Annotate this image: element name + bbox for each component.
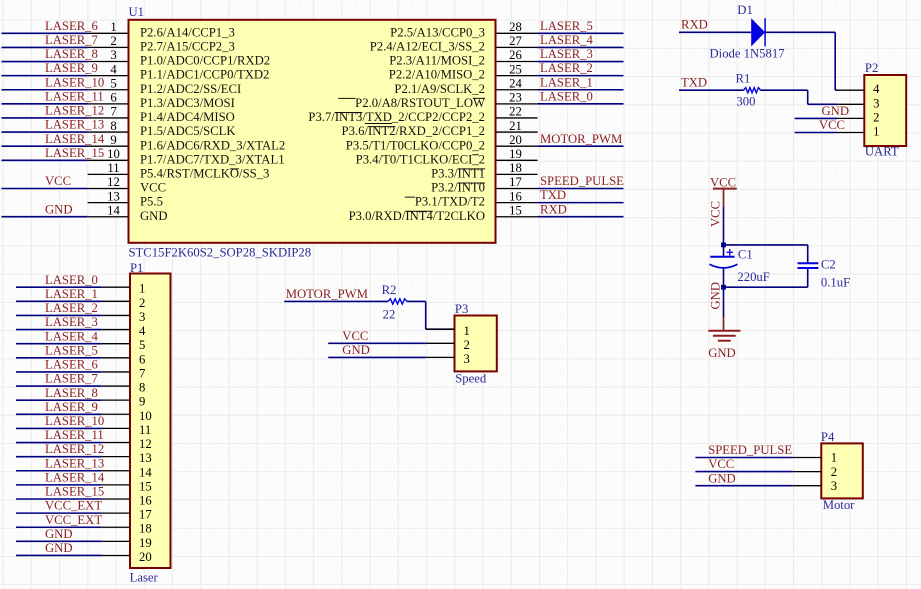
svg-text:VCC: VCC	[45, 174, 71, 188]
svg-text:P2.3/A11/MOSI_2: P2.3/A11/MOSI_2	[389, 54, 485, 68]
svg-text:P1.7/ADC7/TXD_3/XTAL1: P1.7/ADC7/TXD_3/XTAL1	[140, 152, 285, 166]
svg-text:P2.5/A13/CCP0_3: P2.5/A13/CCP0_3	[390, 25, 485, 39]
svg-text:GND: GND	[342, 343, 370, 357]
svg-text:LASER_13: LASER_13	[45, 118, 104, 132]
svg-text:LASER_0: LASER_0	[540, 89, 593, 103]
svg-text:GND: GND	[822, 104, 850, 118]
svg-text:TXD: TXD	[681, 76, 707, 90]
svg-text:19: 19	[509, 147, 522, 161]
svg-text:P2.7/A15/CCP2_3: P2.7/A15/CCP2_3	[140, 40, 235, 54]
svg-text:1: 1	[110, 20, 116, 34]
svg-text:2: 2	[873, 110, 879, 124]
svg-text:LASER_8: LASER_8	[45, 386, 98, 400]
svg-text:15: 15	[139, 479, 152, 493]
svg-text:P5.4/RST/MCLKO/SS_3: P5.4/RST/MCLKO/SS_3	[140, 167, 269, 181]
svg-text:LASER_6: LASER_6	[45, 19, 98, 33]
svg-text:VCC_EXT: VCC_EXT	[45, 499, 102, 513]
svg-text:LASER_5: LASER_5	[45, 343, 98, 357]
svg-text:3: 3	[873, 96, 879, 110]
svg-text:1: 1	[139, 282, 145, 296]
svg-text:14: 14	[107, 203, 120, 217]
svg-text:4: 4	[139, 324, 146, 338]
svg-text:LASER_11: LASER_11	[45, 89, 104, 103]
svg-text:7: 7	[139, 366, 145, 380]
svg-text:2: 2	[139, 296, 145, 310]
svg-text:GND: GND	[140, 209, 168, 223]
svg-text:LASER_4: LASER_4	[45, 329, 99, 343]
svg-text:LASER_15: LASER_15	[45, 485, 104, 499]
svg-text:17: 17	[509, 175, 522, 189]
svg-text:12: 12	[107, 175, 120, 189]
svg-text:P2.4/A12/ECI_3/SS_2: P2.4/A12/ECI_3/SS_2	[370, 40, 485, 54]
svg-text:D1: D1	[737, 3, 753, 17]
svg-text:P5.5: P5.5	[140, 195, 163, 209]
svg-text:20: 20	[509, 133, 522, 147]
svg-text:P3.5/T1/T0CLKO/CCP0_2: P3.5/T1/T0CLKO/CCP0_2	[346, 138, 485, 152]
svg-text:LASER_7: LASER_7	[45, 33, 98, 47]
svg-text:300: 300	[736, 94, 755, 108]
svg-text:MOTOR_PWM: MOTOR_PWM	[540, 132, 622, 146]
svg-text:20: 20	[139, 550, 152, 564]
svg-text:P3.4/T0/T1CLKO/ECI_2: P3.4/T0/T1CLKO/ECI_2	[356, 152, 485, 166]
svg-text:LASER_9: LASER_9	[45, 400, 98, 414]
svg-text:P1.0/ADC0/CCP1/RXD2: P1.0/ADC0/CCP1/RXD2	[140, 54, 270, 68]
svg-text:10: 10	[107, 147, 120, 161]
svg-text:LASER_0: LASER_0	[45, 273, 98, 287]
svg-text:23: 23	[509, 91, 522, 105]
svg-text:4: 4	[110, 62, 117, 76]
svg-text:VCC: VCC	[710, 175, 736, 189]
svg-text:RXD: RXD	[540, 202, 567, 216]
svg-text:LASER_12: LASER_12	[45, 442, 104, 456]
svg-text:VCC_EXT: VCC_EXT	[45, 513, 102, 527]
svg-text:27: 27	[509, 34, 522, 48]
svg-text:VCC: VCC	[342, 329, 368, 343]
svg-text:LASER_10: LASER_10	[45, 414, 104, 428]
svg-text:2: 2	[110, 34, 116, 48]
svg-text:Motor: Motor	[823, 498, 855, 512]
svg-text:7: 7	[110, 105, 116, 119]
svg-text:21: 21	[509, 119, 522, 133]
svg-text:GND: GND	[45, 541, 73, 555]
svg-text:P2: P2	[865, 61, 878, 75]
svg-text:10: 10	[139, 409, 152, 423]
svg-text:SPEED_PULSE: SPEED_PULSE	[708, 443, 792, 457]
svg-text:LASER_5: LASER_5	[540, 19, 593, 33]
svg-text:8: 8	[139, 381, 145, 395]
svg-text:LASER_1: LASER_1	[540, 75, 593, 89]
svg-text:16: 16	[139, 494, 152, 508]
svg-text:LASER_6: LASER_6	[45, 358, 98, 372]
svg-text:6: 6	[139, 352, 145, 366]
svg-text:0.1uF: 0.1uF	[821, 275, 850, 289]
svg-text:LASER_8: LASER_8	[45, 47, 98, 61]
svg-text:VCC: VCC	[819, 118, 845, 132]
svg-text:P2.0/A8/RSTOUT_LOW: P2.0/A8/RSTOUT_LOW	[355, 96, 485, 110]
svg-text:MOTOR_PWM: MOTOR_PWM	[286, 287, 368, 301]
svg-text:LASER_3: LASER_3	[45, 315, 98, 329]
svg-text:2: 2	[831, 465, 837, 479]
svg-text:LASER_11: LASER_11	[45, 428, 104, 442]
svg-text:3: 3	[139, 310, 145, 324]
svg-text:1: 1	[873, 125, 879, 139]
svg-text:STC15F2K60S2_SOP28_SKDIP28: STC15F2K60S2_SOP28_SKDIP28	[129, 246, 312, 260]
svg-text:P2.2/A10/MISO_2: P2.2/A10/MISO_2	[389, 68, 485, 82]
svg-text:11: 11	[139, 423, 151, 437]
svg-text:VCC: VCC	[709, 201, 723, 227]
svg-text:1: 1	[464, 324, 470, 338]
svg-text:C2: C2	[821, 258, 836, 272]
svg-text:22: 22	[383, 308, 396, 322]
svg-text:19: 19	[139, 536, 152, 550]
svg-text:9: 9	[139, 395, 145, 409]
svg-text:GND: GND	[45, 527, 73, 541]
svg-text:2: 2	[464, 338, 470, 352]
svg-text:LASER_12: LASER_12	[45, 104, 104, 118]
svg-text:1: 1	[831, 451, 837, 465]
svg-text:Laser: Laser	[130, 571, 159, 585]
svg-text:12: 12	[139, 437, 152, 451]
svg-text:Speed: Speed	[455, 372, 487, 386]
svg-text:3: 3	[831, 479, 837, 493]
svg-text:5: 5	[110, 76, 116, 90]
svg-text:P1.3/ADC3/MOSI: P1.3/ADC3/MOSI	[140, 96, 235, 110]
svg-text:P3: P3	[455, 302, 468, 316]
svg-text:GND: GND	[708, 346, 736, 360]
svg-text:26: 26	[509, 48, 522, 62]
svg-text:LASER_15: LASER_15	[45, 146, 104, 160]
svg-text:P2.1/A9/SCLK_2: P2.1/A9/SCLK_2	[394, 82, 485, 96]
svg-text:25: 25	[509, 62, 522, 76]
svg-text:11: 11	[107, 161, 119, 175]
svg-text:GND: GND	[708, 471, 736, 485]
svg-text:LASER_2: LASER_2	[45, 301, 98, 315]
svg-text:P1.2/ADC2/SS/ECI: P1.2/ADC2/SS/ECI	[140, 82, 241, 96]
svg-text:13: 13	[107, 189, 120, 203]
svg-text:R2: R2	[382, 283, 397, 297]
svg-text:GND: GND	[709, 282, 723, 310]
svg-text:17: 17	[139, 508, 152, 522]
svg-text:GND: GND	[45, 202, 73, 216]
svg-text:LASER_9: LASER_9	[45, 61, 98, 75]
svg-text:R1: R1	[736, 72, 751, 86]
svg-text:TXD: TXD	[540, 188, 566, 202]
svg-text:5: 5	[139, 338, 145, 352]
svg-text:LASER_14: LASER_14	[45, 471, 105, 485]
svg-text:LASER_1: LASER_1	[45, 287, 98, 301]
svg-text:P1.5/ADC5/SCLK: P1.5/ADC5/SCLK	[140, 124, 236, 138]
svg-text:22: 22	[509, 105, 522, 119]
svg-text:LASER_3: LASER_3	[540, 47, 593, 61]
svg-text:LASER_4: LASER_4	[540, 33, 594, 47]
svg-text:3: 3	[110, 48, 116, 62]
svg-text:16: 16	[509, 189, 522, 203]
svg-text:P1.1/ADC1/CCP0/TXD2: P1.1/ADC1/CCP0/TXD2	[140, 68, 269, 82]
svg-text:P4: P4	[821, 430, 835, 444]
svg-text:28: 28	[509, 20, 522, 34]
svg-text:RXD: RXD	[681, 18, 708, 32]
svg-text:LASER_2: LASER_2	[540, 61, 593, 75]
svg-text:LASER_10: LASER_10	[45, 75, 104, 89]
svg-text:SPEED_PULSE: SPEED_PULSE	[540, 174, 624, 188]
svg-text:LASER_7: LASER_7	[45, 372, 98, 386]
svg-text:P1.6/ADC6/RXD_3/XTAL2: P1.6/ADC6/RXD_3/XTAL2	[140, 138, 285, 152]
svg-text:8: 8	[110, 119, 116, 133]
svg-text:P1.4/ADC4/MISO: P1.4/ADC4/MISO	[140, 110, 235, 124]
svg-text:UART: UART	[865, 145, 899, 159]
svg-text:220uF: 220uF	[737, 270, 769, 284]
svg-text:3: 3	[464, 352, 470, 366]
svg-text:VCC: VCC	[140, 181, 166, 195]
svg-text:P2.6/A14/CCP1_3: P2.6/A14/CCP1_3	[140, 25, 235, 39]
svg-text:18: 18	[139, 522, 152, 536]
svg-text:15: 15	[509, 203, 522, 217]
svg-text:Diode 1N5817: Diode 1N5817	[710, 46, 785, 60]
svg-text:LASER_13: LASER_13	[45, 456, 104, 470]
svg-text:P3.6/INT2/RXD_2/CCP1_2: P3.6/INT2/RXD_2/CCP1_2	[342, 124, 485, 138]
svg-text:4: 4	[873, 82, 880, 96]
svg-text:6: 6	[110, 91, 116, 105]
svg-text:LASER_14: LASER_14	[45, 132, 105, 146]
svg-text:24: 24	[509, 76, 522, 90]
svg-text:13: 13	[139, 451, 152, 465]
svg-text:P3.1/TXD/T2: P3.1/TXD/T2	[415, 195, 485, 209]
svg-text:U1: U1	[129, 5, 145, 19]
svg-text:14: 14	[139, 465, 152, 479]
svg-text:9: 9	[110, 133, 116, 147]
svg-text:18: 18	[509, 161, 522, 175]
svg-text:C1: C1	[738, 248, 753, 262]
svg-text:VCC: VCC	[708, 457, 734, 471]
